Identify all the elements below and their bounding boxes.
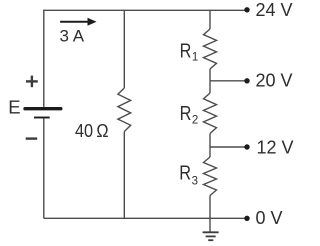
svg-text:24 V: 24 V: [256, 0, 293, 20]
wire R2 to 12V tap: [209, 134, 211, 158]
svg-text:R: R: [180, 102, 192, 125]
plus sign: [26, 76, 38, 88]
wire left upper: [43, 10, 45, 108]
resistor R3 zigzag: [204, 157, 217, 196]
node dot 20V: [244, 78, 249, 83]
svg-text:40 Ω: 40 Ω: [75, 121, 109, 141]
svg-text:1: 1: [192, 52, 198, 64]
node dot 12V: [244, 144, 249, 149]
svg-text:0 V: 0 V: [256, 208, 283, 228]
resistor R2 zigzag: [204, 93, 217, 134]
wire ground stub: [209, 218, 211, 232]
svg-text:2: 2: [192, 114, 198, 126]
minus sign: [26, 137, 38, 139]
current arrow 3A: [60, 18, 96, 26]
svg-text:R: R: [180, 39, 192, 62]
battery E plates: [25, 109, 61, 118]
node 20V tap wire: [210, 80, 247, 82]
resistor 40ohm zigzag: [118, 88, 131, 132]
node 12V tap wire: [210, 146, 247, 148]
wire bottom: [44, 217, 247, 219]
node dot 24V: [244, 7, 249, 12]
node dot 0V: [244, 216, 249, 221]
svg-text:E: E: [8, 96, 20, 117]
resistor R1 zigzag: [204, 29, 217, 69]
wire R1 to 20V tap: [209, 69, 211, 93]
wire top: [44, 9, 247, 11]
wire left lower: [43, 118, 45, 218]
wire right branch top stub: [209, 10, 211, 29]
ground: [203, 232, 219, 240]
svg-text:R: R: [179, 162, 191, 185]
wire R3 to bottom: [209, 196, 211, 219]
svg-text:3 A: 3 A: [60, 26, 85, 45]
svg-text:3: 3: [192, 176, 198, 188]
wire middle branch lower: [123, 132, 125, 219]
svg-text:12 V: 12 V: [257, 137, 294, 157]
svg-text:20 V: 20 V: [256, 71, 293, 91]
wire middle branch upper: [123, 10, 125, 88]
